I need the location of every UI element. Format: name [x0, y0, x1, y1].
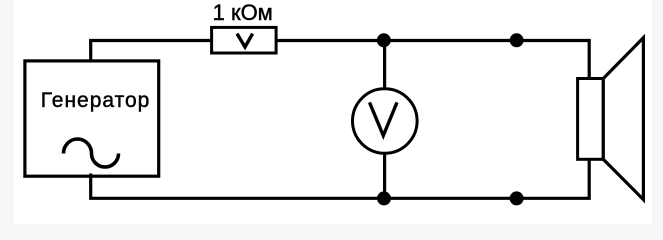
wire: generator top to resistor	[91, 41, 213, 63]
generator box G1	[25, 61, 159, 176]
wire: voltmeter top stub	[383, 41, 386, 91]
junction dot top-right	[510, 33, 524, 47]
voltmeter V1 circle	[353, 89, 418, 154]
junction dot bottom-right	[510, 191, 524, 205]
svg-text:1 кОм: 1 кОм	[213, 0, 273, 25]
speaker cone	[603, 38, 643, 200]
junction dot top-left (voltmeter tap)	[377, 33, 391, 47]
resistor R1 box	[212, 27, 277, 53]
svg-text:Генератор: Генератор	[41, 89, 151, 112]
chevron mark inside resistor	[237, 34, 253, 47]
voltmeter letter V	[370, 102, 398, 135]
speaker driver rectangle	[578, 79, 604, 160]
wire: bottom return (speaker to generator)	[91, 160, 590, 199]
sine wave symbol inside generator	[64, 139, 119, 167]
junction dot bottom-left (voltmeter tap)	[377, 191, 391, 205]
wire: resistor to speaker (top)	[276, 41, 589, 81]
wire: voltmeter bottom stub	[383, 152, 386, 198]
